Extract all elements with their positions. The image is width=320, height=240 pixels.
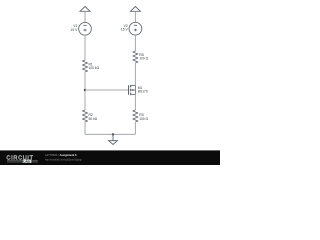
- wire R2 to bottom rail: [84, 122, 86, 134]
- label M1 BS170: [138, 86, 148, 93]
- wire RD to M1 drain: [134, 63, 136, 86]
- wire R1 to node A: [84, 72, 86, 110]
- CircuitLab logo: [7, 155, 38, 163]
- label R1 100 kOhm: [89, 63, 100, 71]
- voltage source V2 15V: [129, 22, 142, 35]
- transistor M1 BS170 (NMOS): [129, 85, 131, 95]
- svg-text:50 kΩ: 50 kΩ: [89, 117, 98, 121]
- svg-text:http://circuitlab.com/c/gb5pmn: http://circuitlab.com/c/gb5pmn3ognqp: [45, 157, 82, 161]
- voltage source V1 15V: [79, 22, 92, 35]
- wire V2 to RD: [134, 35, 136, 51]
- svg-text:100 kΩ: 100 kΩ: [89, 66, 100, 70]
- label V1 15 V: [71, 24, 79, 32]
- power flag V2 (top right, +15V arrow): [130, 7, 140, 12]
- label V2 15 V: [121, 24, 129, 32]
- label R2 50 kOhm: [89, 113, 98, 121]
- wire V1 to R1: [84, 35, 86, 60]
- power flag V1 (top left, +15V arrow): [80, 7, 90, 12]
- wire gate (node A to M1 gate): [85, 89, 128, 91]
- svg-text:15 V: 15 V: [71, 28, 79, 32]
- wire bottom rail: [85, 133, 135, 135]
- resistor R2: [82, 110, 87, 122]
- M1 body arrow: [131, 89, 133, 91]
- wire stem arrow to V1: [84, 11, 86, 22]
- watermark text line 1: [45, 153, 77, 157]
- label RS 100 Ohm: [139, 113, 148, 121]
- svg-text:15 V: 15 V: [121, 28, 129, 32]
- resistor R1: [82, 60, 87, 72]
- svg-text:BS170: BS170: [138, 89, 148, 93]
- svg-text:100 Ω: 100 Ω: [139, 57, 148, 61]
- wire RS to bottom rail: [134, 122, 136, 134]
- ground junction dot: [112, 133, 114, 135]
- watermark bar: [0, 150, 220, 165]
- wire stem arrow to V2: [134, 11, 136, 22]
- node A junction dot: [84, 89, 86, 91]
- svg-text:100 Ω: 100 Ω: [139, 117, 148, 121]
- ground: [109, 134, 118, 144]
- resistor RS: [133, 110, 138, 122]
- wire M1 source to RS: [134, 95, 136, 111]
- label RD 100 Ohm: [139, 53, 148, 61]
- svg-text:LAB: LAB: [23, 159, 30, 163]
- svg-text:e4778664 /: e4778664 /: [45, 153, 59, 157]
- resistor RD: [133, 51, 138, 63]
- svg-text:Assignment 6: Assignment 6: [60, 153, 77, 157]
